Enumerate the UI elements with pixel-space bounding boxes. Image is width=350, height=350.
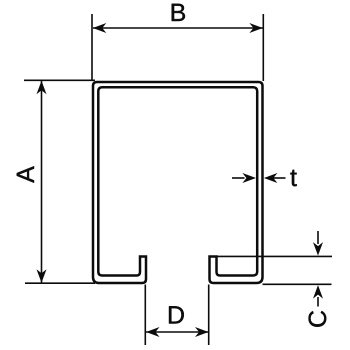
label D xyxy=(169,306,184,323)
dimension C: lower extension line xyxy=(263,283,332,285)
dimension D: left extension line xyxy=(144,285,146,346)
dimension C: upper arrowhead (pointing down) xyxy=(313,242,323,256)
dimension B: right extension line xyxy=(262,14,264,81)
dimension t: left arrow line xyxy=(232,177,245,179)
dimension t: right arrow line xyxy=(272,177,286,179)
dimension A: bottom arrowhead xyxy=(37,269,47,283)
label A (rotated) xyxy=(17,166,34,183)
dimension C: lower arrow line xyxy=(317,297,319,307)
dimension B: dimension line xyxy=(93,27,263,29)
dimension C: upper extension line xyxy=(217,255,332,257)
dimension A: top extension line xyxy=(24,79,95,81)
label t xyxy=(290,170,296,186)
dimension A: top arrowhead xyxy=(37,81,47,95)
C-channel profile outline xyxy=(93,82,263,283)
dimension C: upper arrow line xyxy=(317,231,319,244)
dimension A: dimension line xyxy=(41,81,43,283)
dimension A: bottom extension line xyxy=(25,282,95,284)
dimension D: dimension line xyxy=(146,331,209,333)
label B xyxy=(172,4,185,21)
dimension D: left arrowhead xyxy=(146,327,160,337)
dimension B: left extension line xyxy=(91,14,93,81)
label C (rotated) xyxy=(309,311,327,327)
dimension t: right arrowhead xyxy=(264,173,278,183)
dimension D: right arrowhead xyxy=(195,327,209,337)
dimension t: left arrowhead xyxy=(242,173,256,183)
dimension B: left arrowhead xyxy=(93,23,107,33)
dimension B: right arrowhead xyxy=(249,23,263,33)
dimension D: right extension line xyxy=(208,285,210,346)
dimension C: lower arrowhead (pointing up) xyxy=(313,285,323,299)
